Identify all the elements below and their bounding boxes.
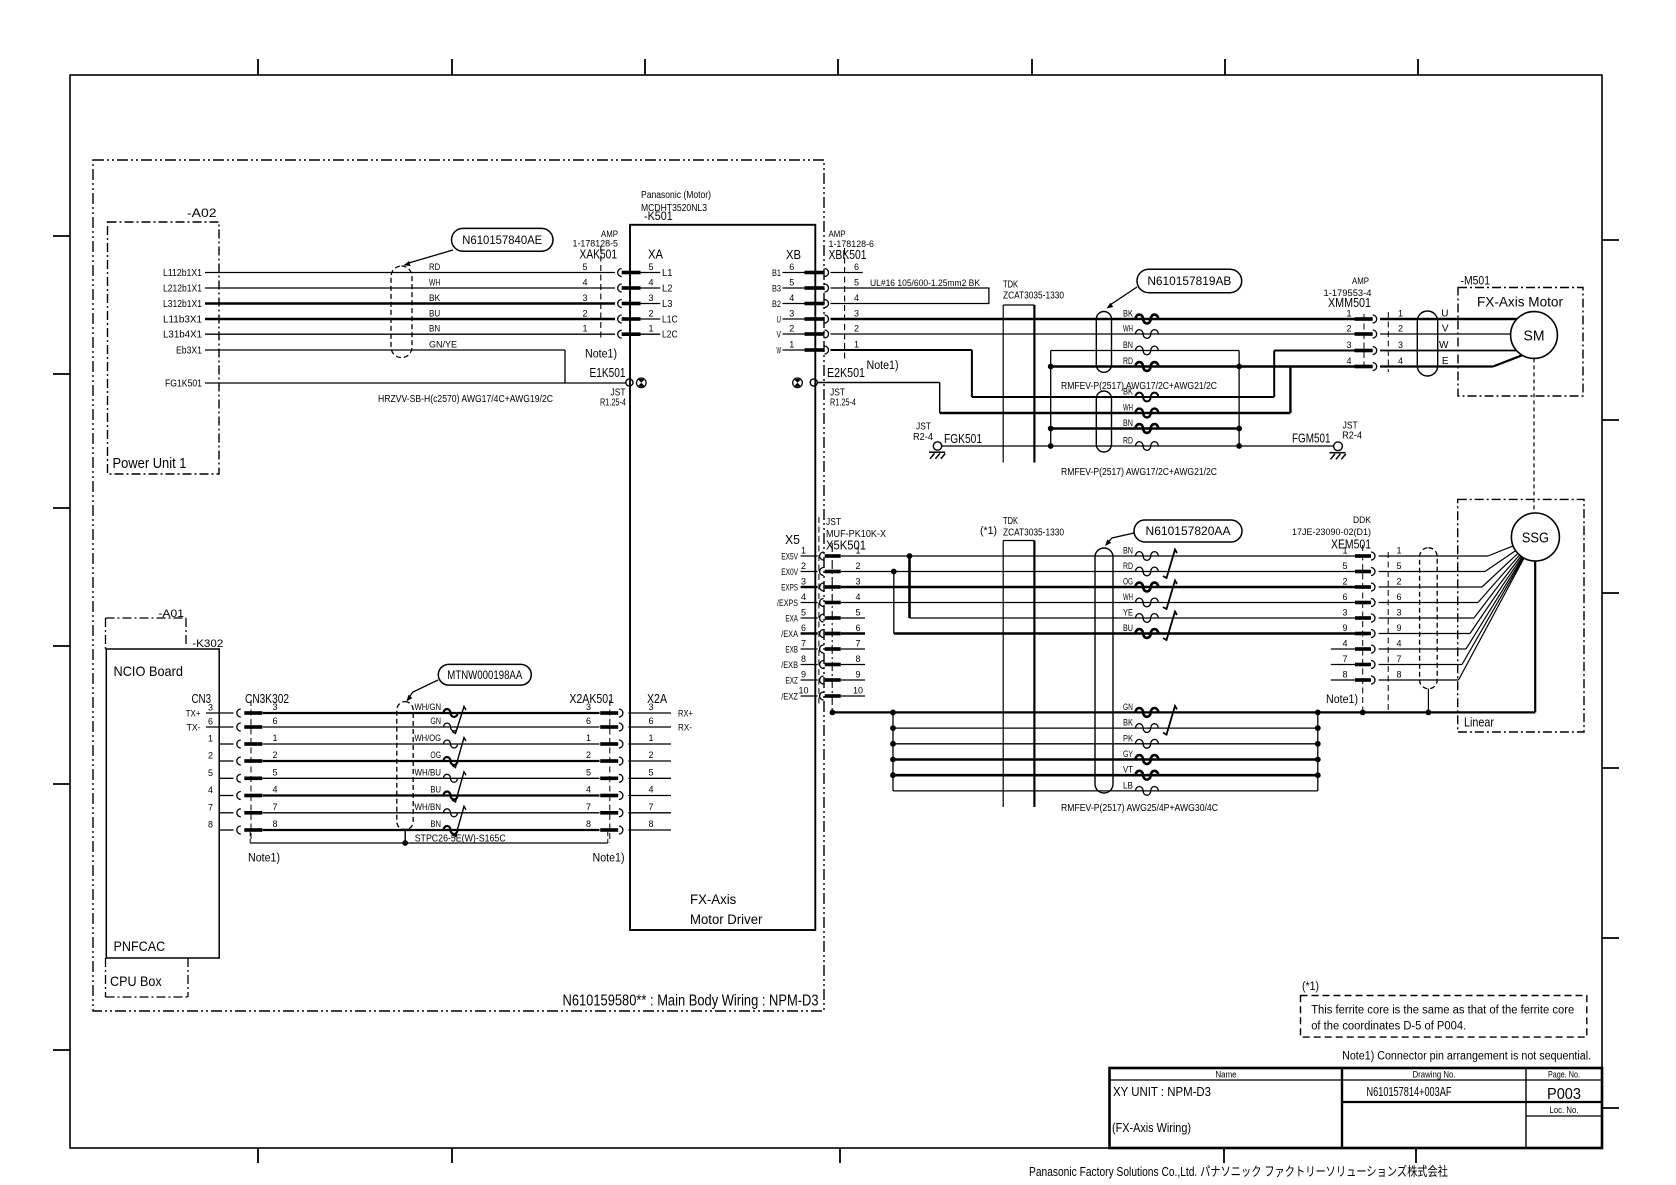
svg-text:L2C: L2C — [662, 330, 678, 341]
svg-text:STPC26-5E(W)-S165C: STPC26-5E(W)-S165C — [415, 834, 506, 845]
svg-text:N610159580** : Main Body Wirin: N610159580** : Main Body Wiring : NPM-D3 — [563, 993, 819, 1010]
svg-text:B2: B2 — [772, 299, 781, 310]
svg-text:/EXZ: /EXZ — [781, 692, 798, 703]
svg-text:L212b1X1: L212b1X1 — [163, 284, 202, 295]
svg-text:4: 4 — [1346, 356, 1351, 366]
svg-text:N610157814+003AF: N610157814+003AF — [1367, 1084, 1452, 1099]
svg-text:XEM501: XEM501 — [1331, 537, 1371, 552]
svg-text:3: 3 — [801, 577, 806, 587]
svg-text:5: 5 — [854, 278, 859, 288]
svg-text:EXB: EXB — [785, 645, 798, 656]
svg-text:10: 10 — [798, 686, 808, 696]
svg-text:1: 1 — [582, 324, 587, 334]
svg-text:N610157819AB: N610157819AB — [1147, 276, 1231, 288]
svg-text:5: 5 — [586, 767, 591, 777]
svg-text:2: 2 — [1342, 577, 1347, 587]
svg-text:EXPS: EXPS — [781, 583, 798, 594]
svg-text:3: 3 — [789, 309, 794, 319]
svg-text:L312b1X1: L312b1X1 — [163, 299, 202, 310]
svg-text:B1: B1 — [772, 268, 781, 279]
svg-text:3: 3 — [272, 702, 277, 712]
svg-text:-K302: -K302 — [192, 638, 223, 650]
svg-text:1: 1 — [208, 734, 213, 744]
svg-text:2: 2 — [582, 309, 587, 319]
svg-text:3: 3 — [1342, 608, 1347, 618]
svg-text:4: 4 — [855, 592, 860, 602]
svg-text:RX-: RX- — [678, 723, 692, 734]
svg-text:BN: BN — [1123, 418, 1133, 429]
svg-text:This ferrite core is the same: This ferrite core is the same as that of… — [1311, 1005, 1574, 1017]
svg-text:Page. No.: Page. No. — [1548, 1070, 1580, 1081]
svg-text:8: 8 — [1396, 670, 1401, 680]
svg-text:TX-: TX- — [187, 723, 201, 734]
svg-text:9: 9 — [1342, 623, 1347, 633]
svg-text:MTNW000198AA: MTNW000198AA — [447, 670, 522, 682]
svg-text:U: U — [1441, 309, 1448, 320]
svg-text:PNFCAC: PNFCAC — [114, 938, 166, 954]
svg-text:Note1) Connector pin arrangeme: Note1) Connector pin arrangement is not … — [1342, 1051, 1591, 1063]
svg-text:W: W — [1439, 340, 1449, 351]
svg-text:5: 5 — [789, 278, 794, 288]
svg-text:3: 3 — [648, 702, 653, 712]
svg-text:2: 2 — [855, 561, 860, 571]
svg-text:E: E — [1442, 356, 1449, 367]
svg-text:Loc. No.: Loc. No. — [1550, 1105, 1579, 1116]
svg-text:4: 4 — [586, 785, 591, 795]
svg-text:L11b3X1: L11b3X1 — [163, 315, 202, 326]
svg-text:NCIO Board: NCIO Board — [114, 663, 184, 679]
svg-text:GY: GY — [1123, 749, 1133, 760]
svg-text:BK: BK — [429, 293, 441, 304]
svg-text:L1: L1 — [662, 268, 673, 279]
svg-text:(*1): (*1) — [980, 525, 997, 537]
svg-text:BN: BN — [1123, 340, 1133, 351]
svg-text:Panasonic Factory Solutions Co: Panasonic Factory Solutions Co.,Ltd. パナソ… — [1029, 1164, 1448, 1179]
svg-text:TX+: TX+ — [186, 709, 201, 720]
svg-text:3: 3 — [1396, 608, 1401, 618]
svg-text:W: W — [777, 346, 782, 357]
svg-text:Eb3X1: Eb3X1 — [176, 346, 202, 357]
svg-text:YE: YE — [1123, 608, 1133, 619]
svg-text:4: 4 — [272, 785, 277, 795]
svg-text:WH/BN: WH/BN — [415, 802, 442, 813]
svg-text:CN3K302: CN3K302 — [245, 691, 289, 706]
svg-text:4: 4 — [1398, 356, 1403, 366]
svg-text:3: 3 — [582, 293, 587, 303]
svg-text:7: 7 — [1342, 654, 1347, 664]
svg-text:6: 6 — [801, 623, 806, 633]
svg-text:7: 7 — [801, 639, 806, 649]
svg-text:1: 1 — [801, 546, 806, 556]
svg-text:Note1): Note1) — [593, 853, 625, 865]
svg-text:X2AK501: X2AK501 — [569, 691, 614, 706]
svg-text:WH/OG: WH/OG — [415, 733, 442, 744]
svg-text:/EXPS: /EXPS — [777, 598, 798, 609]
svg-text:7: 7 — [1396, 654, 1401, 664]
svg-text:GN: GN — [430, 716, 441, 727]
svg-text:EXA: EXA — [785, 614, 798, 625]
svg-text:8: 8 — [855, 654, 860, 664]
svg-text:6: 6 — [1342, 592, 1347, 602]
svg-text:TDK: TDK — [1003, 280, 1018, 291]
svg-text:LB: LB — [1123, 780, 1133, 791]
svg-text:7: 7 — [586, 802, 591, 812]
svg-text:3: 3 — [648, 293, 653, 303]
svg-text:2: 2 — [1396, 577, 1401, 587]
svg-text:1: 1 — [855, 546, 860, 556]
svg-text:5: 5 — [1396, 561, 1401, 571]
svg-text:RMFEV-P(2517) AWG25/4P+AWG30/4: RMFEV-P(2517) AWG25/4P+AWG30/4C — [1061, 803, 1218, 814]
svg-text:WH: WH — [1123, 403, 1133, 414]
svg-text:GN/YE: GN/YE — [429, 340, 457, 351]
svg-text:3: 3 — [586, 702, 591, 712]
svg-text:RX+: RX+ — [678, 709, 693, 720]
svg-text:WH/GN: WH/GN — [415, 702, 442, 713]
svg-text:L31b4X1: L31b4X1 — [163, 330, 202, 341]
svg-text:2: 2 — [801, 561, 806, 571]
svg-text:1: 1 — [789, 340, 794, 350]
svg-text:10: 10 — [853, 686, 863, 696]
svg-text:4: 4 — [801, 592, 806, 602]
svg-text:1: 1 — [1396, 546, 1401, 556]
svg-text:FX-Axis: FX-Axis — [690, 892, 737, 907]
svg-text:Name: Name — [1216, 1070, 1237, 1081]
svg-text:3: 3 — [854, 309, 859, 319]
svg-text:L112b1X1: L112b1X1 — [163, 268, 202, 279]
svg-text:1: 1 — [648, 324, 653, 334]
svg-text:JST: JST — [916, 422, 931, 433]
svg-text:FGK501: FGK501 — [944, 431, 982, 446]
svg-text:5: 5 — [855, 608, 860, 618]
svg-text:3: 3 — [855, 577, 860, 587]
svg-text:U: U — [777, 315, 782, 326]
svg-text:6: 6 — [272, 716, 277, 726]
svg-text:R1.25-4: R1.25-4 — [830, 398, 856, 409]
svg-text:X5: X5 — [785, 532, 800, 547]
svg-text:6: 6 — [586, 716, 591, 726]
svg-text:6: 6 — [854, 262, 859, 272]
svg-text:WH: WH — [429, 278, 440, 289]
svg-text:8: 8 — [1342, 670, 1347, 680]
svg-text:Note1): Note1) — [867, 360, 899, 372]
svg-text:-A02: -A02 — [187, 208, 217, 220]
svg-text:N610157820AA: N610157820AA — [1146, 526, 1231, 538]
svg-text:2: 2 — [208, 751, 213, 761]
svg-text:5: 5 — [208, 768, 213, 778]
svg-text:4: 4 — [789, 293, 794, 303]
svg-text:2: 2 — [854, 324, 859, 334]
svg-text:2: 2 — [789, 324, 794, 334]
svg-text:9: 9 — [855, 670, 860, 680]
svg-text:4: 4 — [1342, 639, 1347, 649]
svg-text:5: 5 — [582, 262, 587, 272]
svg-text:BK: BK — [1123, 718, 1134, 729]
svg-text:EX0V: EX0V — [781, 567, 798, 578]
svg-text:-K501: -K501 — [644, 209, 673, 223]
svg-text:RD: RD — [1123, 436, 1133, 447]
svg-text:4: 4 — [648, 278, 653, 288]
svg-text:(*1): (*1) — [1302, 981, 1319, 993]
svg-text:8: 8 — [648, 819, 653, 829]
svg-text:7: 7 — [648, 802, 653, 812]
svg-text:Motor Driver: Motor Driver — [690, 912, 763, 927]
svg-text:Note1): Note1) — [1326, 694, 1358, 706]
svg-text:4: 4 — [208, 785, 213, 795]
svg-text:4: 4 — [582, 278, 587, 288]
svg-text:GN: GN — [1123, 702, 1133, 713]
svg-text:1: 1 — [648, 733, 653, 743]
svg-text:2: 2 — [1398, 324, 1403, 334]
svg-text:JST: JST — [826, 517, 841, 528]
svg-text:1: 1 — [1342, 546, 1347, 556]
svg-text:9: 9 — [801, 670, 806, 680]
svg-text:V: V — [1442, 324, 1449, 335]
svg-text:B3: B3 — [772, 284, 781, 295]
svg-text:DDK: DDK — [1353, 515, 1372, 526]
svg-text:ZCAT3035-1330: ZCAT3035-1330 — [1003, 291, 1064, 302]
svg-text:R2-4: R2-4 — [1342, 431, 1362, 442]
svg-text:E2K501: E2K501 — [827, 365, 865, 380]
svg-text:RD: RD — [429, 262, 440, 273]
svg-text:VT: VT — [1123, 765, 1133, 776]
svg-text:Power Unit 1: Power Unit 1 — [113, 456, 187, 472]
svg-text:E1K501: E1K501 — [590, 365, 626, 380]
svg-text:/EXA: /EXA — [781, 629, 798, 640]
svg-text:TDK: TDK — [1003, 516, 1018, 527]
svg-text:5: 5 — [1342, 561, 1347, 571]
svg-text:7: 7 — [272, 802, 277, 812]
svg-text:OG: OG — [430, 750, 441, 761]
svg-text:OG: OG — [1123, 577, 1133, 588]
svg-text:N610157840AE: N610157840AE — [462, 235, 542, 247]
svg-text:RD: RD — [1123, 356, 1133, 367]
svg-text:5: 5 — [648, 767, 653, 777]
svg-text:6: 6 — [1396, 592, 1401, 602]
svg-text:of the coordinates D-5 of P004: of the coordinates D-5 of P004. — [1311, 1021, 1466, 1033]
svg-text:FGM501: FGM501 — [1292, 431, 1331, 446]
svg-text:L1C: L1C — [662, 315, 678, 326]
svg-text:2: 2 — [648, 309, 653, 319]
svg-text:EXZ: EXZ — [785, 676, 798, 687]
svg-text:FX-Axis Motor: FX-Axis Motor — [1477, 295, 1564, 310]
svg-text:BU: BU — [429, 309, 440, 320]
svg-text:2: 2 — [648, 750, 653, 760]
svg-text:RMFEV-P(2517) AWG17/2C+AWG21/2: RMFEV-P(2517) AWG17/2C+AWG21/2C — [1061, 381, 1217, 392]
svg-text:L3: L3 — [662, 299, 673, 310]
svg-text:6: 6 — [648, 716, 653, 726]
svg-text:XA: XA — [648, 247, 663, 262]
svg-text:8: 8 — [272, 819, 277, 829]
svg-text:AMP: AMP — [1352, 276, 1369, 287]
svg-text:P003: P003 — [1547, 1086, 1581, 1103]
svg-text:R1.25-4: R1.25-4 — [600, 398, 626, 409]
svg-text:BN: BN — [429, 324, 440, 335]
svg-text:3: 3 — [1398, 340, 1403, 350]
svg-text:9: 9 — [1396, 623, 1401, 633]
svg-text:V: V — [777, 330, 782, 341]
svg-text:BN: BN — [430, 819, 441, 830]
svg-text:XB: XB — [786, 247, 801, 262]
svg-text:BN: BN — [1123, 546, 1133, 557]
svg-text:R2-4: R2-4 — [913, 432, 933, 443]
svg-text:Panasonic (Motor): Panasonic (Motor) — [641, 190, 711, 201]
svg-text:RD: RD — [1123, 561, 1133, 572]
svg-text:7: 7 — [208, 802, 213, 812]
svg-text:5: 5 — [801, 608, 806, 618]
svg-text:SSG: SSG — [1522, 531, 1549, 547]
svg-text:1: 1 — [854, 340, 859, 350]
svg-text:4: 4 — [1396, 639, 1401, 649]
svg-text:1: 1 — [1346, 309, 1351, 319]
svg-text:6: 6 — [208, 717, 213, 727]
svg-text:8: 8 — [586, 819, 591, 829]
svg-text:BK: BK — [1123, 309, 1134, 320]
svg-text:BU: BU — [1123, 623, 1133, 634]
svg-text:L2: L2 — [662, 284, 673, 295]
svg-text:/EXB: /EXB — [781, 660, 798, 671]
svg-text:4: 4 — [854, 293, 859, 303]
svg-text:6: 6 — [855, 623, 860, 633]
svg-text:WH: WH — [1123, 324, 1133, 335]
svg-text:3: 3 — [1346, 340, 1351, 350]
svg-text:6: 6 — [789, 262, 794, 272]
svg-text:SM: SM — [1524, 328, 1545, 345]
svg-text:BU: BU — [430, 785, 441, 796]
svg-text:Note1): Note1) — [248, 853, 280, 865]
svg-text:(FX-Axis Wiring): (FX-Axis Wiring) — [1112, 1120, 1191, 1135]
svg-text:Linear: Linear — [1464, 716, 1494, 730]
svg-text:2: 2 — [272, 750, 277, 760]
svg-text:4: 4 — [648, 785, 653, 795]
svg-text:XY UNIT : NPM-D3: XY UNIT : NPM-D3 — [1113, 1084, 1211, 1099]
svg-text:2: 2 — [1346, 324, 1351, 334]
svg-text:8: 8 — [801, 654, 806, 664]
svg-text:5: 5 — [272, 767, 277, 777]
svg-text:Drawing No.: Drawing No. — [1413, 1070, 1456, 1081]
svg-text:XAK501: XAK501 — [580, 247, 618, 262]
svg-text:XBK501: XBK501 — [829, 247, 867, 262]
svg-text:1: 1 — [272, 733, 277, 743]
svg-text:WH: WH — [1123, 592, 1133, 603]
svg-text:CPU Box: CPU Box — [110, 973, 162, 989]
svg-text:RMFEV-P(2517) AWG17/2C+AWG21/2: RMFEV-P(2517) AWG17/2C+AWG21/2C — [1061, 467, 1217, 478]
svg-text:7: 7 — [855, 639, 860, 649]
svg-text:HRZVV-SB-H(c2570) AWG17/4C+AWG: HRZVV-SB-H(c2570) AWG17/4C+AWG19/2C — [378, 394, 553, 405]
svg-text:2: 2 — [586, 750, 591, 760]
svg-text:1: 1 — [586, 733, 591, 743]
svg-text:5: 5 — [648, 262, 653, 272]
svg-text:WH/BU: WH/BU — [415, 767, 442, 778]
svg-text:1: 1 — [1398, 309, 1403, 319]
svg-text:FG1K501: FG1K501 — [165, 379, 202, 390]
svg-text:ZCAT3035-1330: ZCAT3035-1330 — [1003, 528, 1064, 539]
svg-text:PK: PK — [1123, 733, 1134, 744]
svg-text:EX5V: EX5V — [781, 552, 798, 563]
svg-text:8: 8 — [208, 820, 213, 830]
svg-text:Note1): Note1) — [585, 349, 617, 361]
svg-text:UL#16 105/600-1.25mm2 BK: UL#16 105/600-1.25mm2 BK — [870, 278, 981, 289]
svg-text:3: 3 — [208, 703, 213, 713]
svg-text:-M501: -M501 — [1461, 276, 1491, 288]
